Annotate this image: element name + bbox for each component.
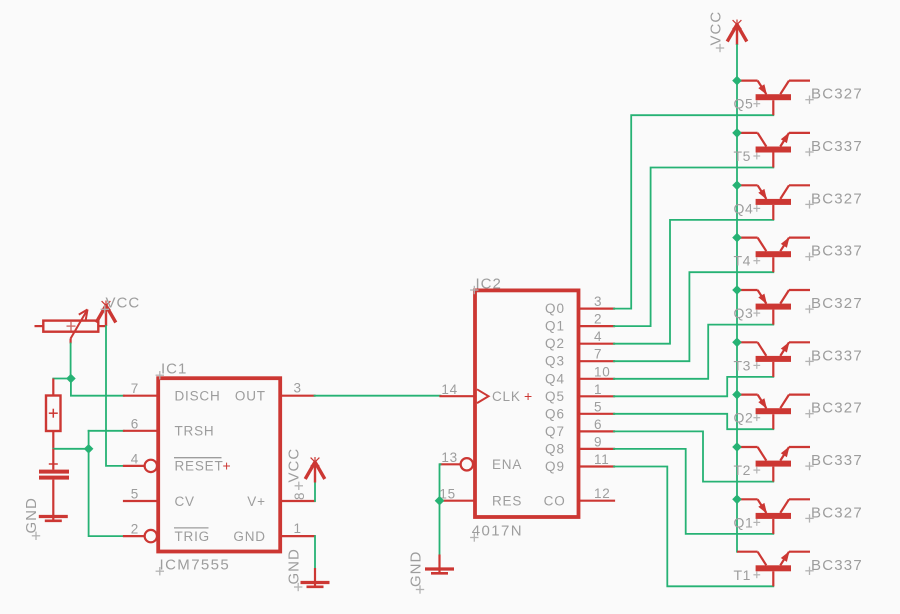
pin 3 stub Q0 [579,308,615,310]
svg-text:4: 4 [594,329,602,344]
svg-text:Q5: Q5 [545,389,565,404]
pin 4 stub [124,465,145,467]
pin 1 stub Q5 [579,395,615,397]
overline RESET [174,457,222,459]
wire Q output 11 to T1 base [614,467,773,587]
resistor R1 [46,379,61,449]
svg-text:4: 4 [131,451,139,466]
pin 5 stub [124,500,158,502]
svg-text:+: + [223,457,231,473]
junction rail at T2 [732,442,742,452]
wire VCC rail [736,45,738,552]
svg-text:OUT: OUT [235,389,266,404]
pin 3 stub [280,395,314,397]
junction ENA-RES [435,496,445,506]
svg-text:DISCH: DISCH [175,389,221,404]
svg-text:BC337: BC337 [811,347,863,364]
wire pin 1 to GND [314,536,316,568]
svg-text:5: 5 [594,399,602,414]
svg-text:Q2: Q2 [734,410,754,426]
junction rail at Q4 [732,180,742,190]
svg-text:BC327: BC327 [811,86,863,103]
svg-text:GND: GND [23,497,40,533]
pin 7 stub [124,395,158,397]
svg-text:CV: CV [175,494,195,509]
transistor Q2 BC327 [737,395,810,430]
power VCC (potentiometer) [96,301,116,327]
svg-text:Q8: Q8 [545,441,565,456]
pin 10 stub Q4 [579,378,615,380]
transistor T3 BC337 [737,342,810,377]
svg-text:3: 3 [594,294,602,309]
wire Q output 9 to Q1 base [614,449,773,534]
svg-text:BC327: BC327 [811,504,863,521]
ground (below C1) [39,502,68,521]
wire node A to pin 7 DISCH [71,379,124,396]
junction rail at Q3 [732,285,742,295]
pin 13 stub ENA [441,463,461,465]
counter IC2 4017N box [475,290,579,517]
svg-text:6: 6 [594,417,602,432]
pin 13 inversion bubble [461,458,473,470]
pin 15 stub RES [441,500,476,502]
svg-text:Q9: Q9 [545,459,565,474]
wire OUT to CLK [315,395,441,397]
wire pin 8 to VCC [314,481,316,501]
pin 14 stub CLK [441,395,476,397]
svg-text:Q0: Q0 [545,301,565,316]
wire node B vertical [88,431,90,449]
wire Q output 4 to Q4 base [614,220,773,344]
svg-text:GND: GND [286,548,303,584]
svg-text:RES: RES [492,494,522,509]
junction rail at T3 [732,337,742,347]
svg-text:T5: T5 [734,148,752,164]
junction rail at Q2 [732,390,742,400]
svg-text:TRSH: TRSH [175,424,215,439]
wire Q output 5 to Q2 base [614,414,773,429]
svg-text:BC337: BC337 [811,452,863,469]
svg-text:TRIG: TRIG [175,529,210,544]
wire Q output 10 to Q3 base [614,325,773,379]
svg-text:IC1: IC1 [161,361,187,378]
wire to pin 6 TRSH [89,430,124,432]
svg-text:Q1: Q1 [545,319,565,334]
svg-text:VCC: VCC [708,11,725,46]
svg-text:Q4: Q4 [545,371,565,386]
svg-text:IC2: IC2 [476,276,502,293]
svg-text:1: 1 [594,382,602,397]
pin 8 stub [280,500,314,502]
wire VCC to pin 4 RESET [106,326,124,466]
transistor T5 BC337 [737,132,810,167]
wire node B to pin 2 TRIG [89,449,124,536]
svg-text:GND: GND [407,551,424,587]
junction node A [66,374,76,384]
clock triangle [477,389,489,403]
svg-text:+: + [524,388,532,404]
wire node B to R1 bottom / C1 top [53,448,88,450]
svg-text:Q3: Q3 [545,354,565,369]
svg-text:13: 13 [441,450,458,465]
svg-text:14: 14 [441,382,458,397]
svg-text:Q4: Q4 [734,200,754,216]
svg-text:2: 2 [594,312,602,327]
junction node B [84,444,94,454]
svg-text:Q7: Q7 [545,424,565,439]
pin 1 stub [280,535,314,537]
svg-text:Q6: Q6 [545,406,565,421]
svg-text:10: 10 [594,364,611,379]
svg-text:Q2: Q2 [545,336,565,351]
ground (IC2) [425,555,454,574]
pin 7 stub Q3 [579,360,615,362]
transistor T1 BC337 [737,551,810,586]
wire Q output 7 to T4 base [614,272,773,361]
svg-text:V+: V+ [247,494,266,509]
svg-text:5: 5 [131,487,139,502]
junction rail at T5 [732,128,742,138]
wire pot wiper to node A [70,344,72,379]
svg-text:CLK: CLK [492,389,521,404]
wire node A to R1 top [53,378,71,380]
transistor Q3 BC327 [737,290,810,325]
transistor Q4 BC327 [737,185,810,220]
transistor Q5 BC327 [737,81,810,116]
svg-text:3: 3 [294,381,302,396]
wire Q output 1 to T3 base [614,377,773,396]
power VCC (rail) [727,20,747,46]
transistor T2 BC337 [737,446,810,481]
op IC1 ICM7555 box [158,378,280,551]
transistor T4 BC337 [737,237,810,272]
svg-text:Q5: Q5 [734,96,754,112]
svg-text:T2: T2 [734,462,752,478]
svg-text:RESET: RESET [175,459,224,474]
power VCC (IC1 V+) [305,457,325,483]
junction rail at Q1 [732,494,742,504]
potentiometer R2 [35,310,107,344]
svg-text:ENA: ENA [492,457,522,472]
svg-text:VCC: VCC [106,295,141,312]
capacitor C1 [39,449,69,502]
wire ENA/RES to GND [440,464,441,554]
svg-text:BC327: BC327 [811,400,863,417]
svg-text:ICM7555: ICM7555 [160,556,231,573]
svg-text:4017N: 4017N [472,523,523,540]
svg-text:T3: T3 [734,357,752,373]
pin 4 stub Q2 [579,343,615,345]
svg-text:11: 11 [594,452,610,467]
pin 11 stub Q9 [579,465,615,467]
svg-text:BC327: BC327 [811,295,863,312]
ground (IC1 pin 1) [301,568,330,587]
svg-text:BC337: BC337 [811,243,863,260]
wire Q output 3 to Q5 base [614,115,773,308]
svg-text:6: 6 [131,416,139,431]
svg-text:8: 8 [292,492,307,500]
junction rail at T4 [732,233,742,243]
svg-text:BC337: BC337 [811,557,863,574]
pin 6 stub Q7 [579,430,615,432]
svg-text:9: 9 [594,434,602,449]
pin 2 stub Q1 [579,325,615,327]
pin 9 stub Q8 [579,448,615,450]
pin 12 stub CO [579,500,615,502]
svg-text:CO: CO [544,494,566,509]
svg-text:T1: T1 [734,567,752,583]
pin 4 inversion bubble [145,460,157,472]
overline TRIG [174,527,209,529]
wire Q output 6 to T2 base [614,431,773,481]
junction rail at Q5 [732,76,742,86]
svg-text:BC337: BC337 [811,138,863,155]
svg-text:T4: T4 [734,253,752,269]
svg-text:12: 12 [594,486,611,501]
pin 5 stub Q6 [579,413,615,415]
transistor Q1 BC327 [737,499,810,534]
pin 2 stub [124,535,145,537]
svg-text:1: 1 [294,521,302,536]
pin 6 stub [124,430,158,432]
wire Q output 2 to T5 base [614,168,773,327]
svg-text:GND: GND [233,529,265,544]
pin 2 inversion bubble [145,530,157,542]
svg-text:7: 7 [131,381,139,396]
svg-text:Q1: Q1 [734,514,754,530]
svg-text:Q3: Q3 [734,305,754,321]
svg-text:BC327: BC327 [811,190,863,207]
svg-text:VCC: VCC [286,448,303,483]
svg-text:2: 2 [131,522,139,537]
svg-text:7: 7 [594,347,602,362]
